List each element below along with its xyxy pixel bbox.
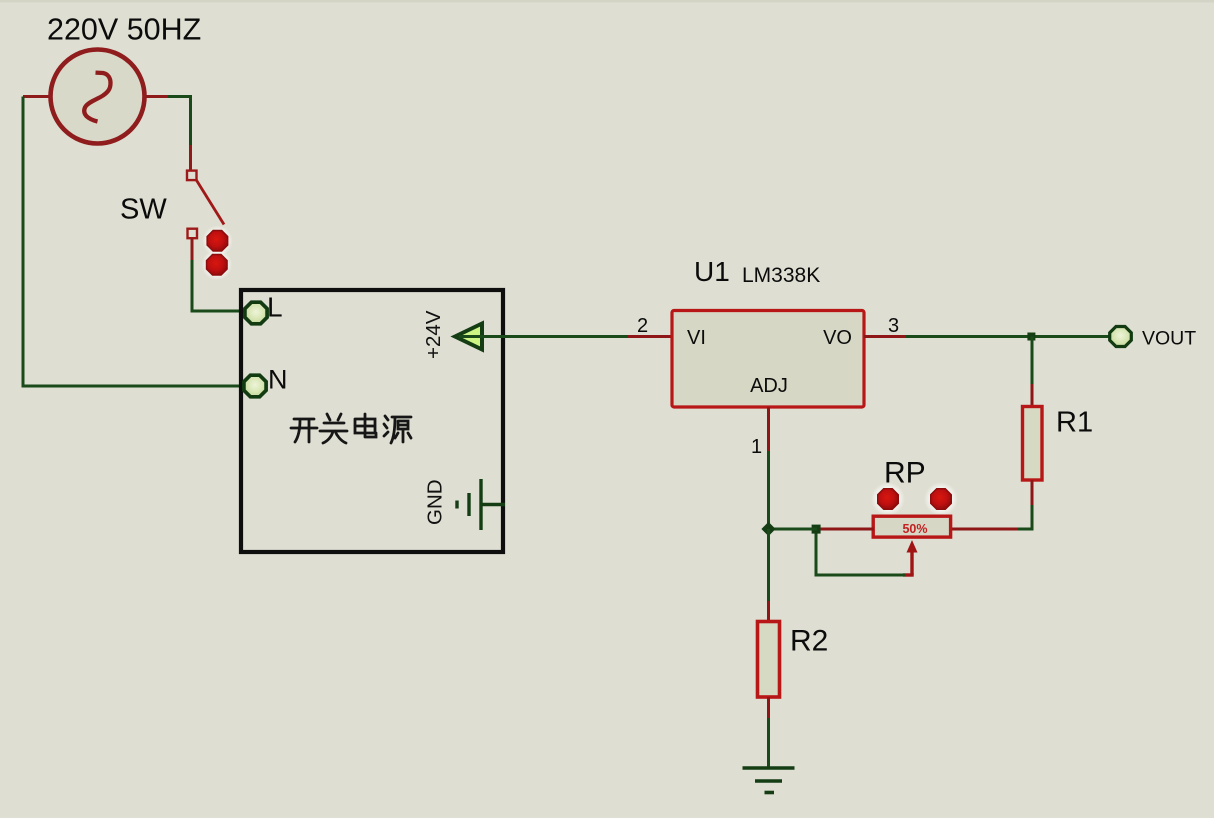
- pin stub R1 bottom: [1031, 480, 1034, 507]
- switch lever: [196, 180, 224, 225]
- glyph 电: [355, 414, 376, 437]
- switch actuator dot 1: [207, 231, 228, 252]
- switch SW: [187, 171, 224, 239]
- junction node: [1027, 333, 1035, 341]
- resistor R1: [1023, 407, 1043, 481]
- pin 2 stub: [628, 335, 672, 338]
- wire: [23, 95, 52, 98]
- pin stub R2 bottom: [767, 697, 770, 720]
- svg-text:L: L: [267, 292, 283, 323]
- svg-text:50%: 50%: [902, 522, 927, 536]
- potentiometer RP body: [873, 516, 950, 537]
- wire: [192, 260, 247, 311]
- svg-text:220V 50HZ: 220V 50HZ: [47, 13, 201, 47]
- wire ADJ to junction: [767, 451, 770, 530]
- pot actuator dot 1: [878, 489, 899, 510]
- junction node A: [761, 522, 775, 536]
- svg-text:VOUT: VOUT: [1142, 328, 1196, 350]
- svg-text:LM338K: LM338K: [742, 264, 820, 287]
- pin 1 stub (ADJ): [767, 407, 770, 453]
- wire VO to VOUT: [906, 335, 1111, 338]
- wire wiper return: [903, 573, 914, 576]
- wire junction to R2: [767, 529, 770, 603]
- pot actuator halo: [924, 482, 958, 516]
- glyph 关: [320, 414, 347, 443]
- glyph 开: [291, 419, 317, 442]
- power terminal +24V arrow: [455, 324, 482, 350]
- svg-text:2: 2: [637, 315, 648, 337]
- pin stub R2 top: [767, 601, 770, 623]
- wire: [168, 97, 191, 148]
- junction node B: [812, 525, 821, 534]
- regulator U1 LM338K: [672, 311, 864, 408]
- svg-text:R1: R1: [1056, 407, 1093, 439]
- switch contact bottom: [188, 229, 198, 239]
- svg-text:GND: GND: [424, 479, 447, 525]
- wire wiper return green: [816, 529, 905, 575]
- svg-text:1: 1: [751, 436, 762, 458]
- svg-text:SW: SW: [120, 194, 167, 226]
- svg-text:VI: VI: [687, 327, 706, 349]
- PSU box 开关电源: [241, 290, 503, 552]
- wire: [191, 238, 194, 262]
- pot wiper arrow: [910, 548, 913, 575]
- wire junction to R1: [1031, 337, 1034, 387]
- svg-text:VO: VO: [823, 327, 852, 349]
- pin stub RP right: [949, 528, 1018, 531]
- wire R1 to RP: [1012, 505, 1032, 529]
- svg-text:+24V: +24V: [422, 310, 445, 359]
- resistor R2: [758, 622, 780, 698]
- svg-text:U1: U1: [694, 256, 730, 287]
- AC source V1 220V 50HZ: [51, 50, 145, 144]
- wire +24V to U1: [459, 335, 630, 338]
- switch actuator halo: [202, 225, 233, 256]
- terminal pad L: [245, 302, 267, 324]
- ground symbol inside PSU: [457, 479, 505, 530]
- terminal pad N: [244, 375, 266, 397]
- wire: [23, 97, 246, 387]
- svg-text:N: N: [268, 365, 288, 395]
- pin stub R1 top: [1031, 384, 1034, 408]
- terminal pad VOUT: [1110, 327, 1132, 347]
- switch contact top: [187, 171, 197, 181]
- wire: [189, 145, 192, 171]
- svg-text:ADJ: ADJ: [750, 375, 788, 397]
- svg-text:3: 3: [888, 315, 899, 337]
- switch actuator dot 2: [207, 255, 228, 276]
- wire R2 to ground: [767, 718, 770, 768]
- wire: [144, 95, 170, 98]
- pot actuator dot 2: [931, 489, 952, 510]
- svg-text:R2: R2: [790, 625, 828, 658]
- glyph 源: [384, 416, 411, 443]
- pin stub RP left: [816, 528, 874, 531]
- label 开关电源 (drawn strokes): [291, 414, 411, 443]
- ground: [743, 768, 795, 793]
- wire junction row: [769, 528, 818, 531]
- pin 3 stub: [864, 335, 908, 338]
- pot actuator halo: [871, 482, 905, 516]
